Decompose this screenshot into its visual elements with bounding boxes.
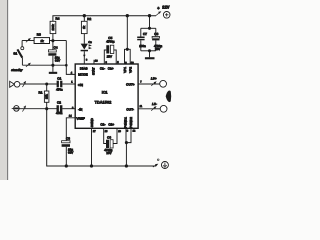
wire VREF pin 14 to C3 (66, 118, 75, 141)
wire C4 node to ground (52, 65, 54, 72)
capacitor C1 (57, 81, 59, 88)
wire lever to standby row (21, 58, 23, 65)
svg-text:12V: 12V (162, 5, 169, 10)
wire R4 to node (52, 34, 54, 41)
switch S1 contact arrow bottom (26, 64, 30, 67)
wire switch top contact to R3 (22, 40, 34, 42)
svg-text:15: 15 (105, 130, 108, 133)
svg-text:PGND1: PGND1 (123, 117, 127, 128)
svg-text:VREF: VREF (76, 116, 85, 120)
svg-text:LS+: LS+ (151, 77, 157, 81)
op-amp IC1 TDA1562 outline (75, 64, 138, 128)
pin 16 STAT stub (93, 60, 95, 64)
svg-text:6: 6 (127, 130, 129, 133)
input connector K1 (10, 81, 15, 87)
svg-text:R2: R2 (87, 17, 91, 21)
svg-text:C2: C2 (57, 100, 61, 104)
node R3/R4/C4 junction (51, 39, 54, 42)
svg-text:17: 17 (93, 130, 96, 133)
svg-text:R1: R1 (39, 90, 43, 94)
svg-text:PGND2: PGND2 (129, 117, 133, 128)
svg-text:11: 11 (140, 105, 143, 108)
wire OUT+ pin 7 to terminal LS+ (138, 83, 160, 85)
capacitor C4 (52, 41, 54, 50)
svg-text:25V: 25V (107, 54, 112, 58)
terminal ground (153, 165, 157, 168)
svg-text:100n: 100n (139, 44, 146, 48)
capacitor C2 (57, 105, 59, 112)
node rail/C7 C8 feed (148, 14, 151, 17)
svg-text:OUT+: OUT+ (126, 83, 135, 87)
wire input2 to C2 (19, 108, 56, 110)
svg-text:7: 7 (140, 80, 142, 83)
svg-text:C3: C3 (66, 136, 70, 140)
capacitor C8 (155, 28, 157, 36)
svg-text:R3: R3 (37, 33, 41, 37)
svg-text:TDA1562: TDA1562 (95, 100, 112, 104)
page edge grey band (0, 0, 7, 180)
svg-text:8: 8 (86, 58, 88, 61)
switch S1 contact arrow top (26, 39, 30, 42)
svg-text:On: On (88, 41, 92, 44)
wire R3 to junction (50, 40, 53, 42)
wire bottom ground rail (47, 109, 157, 166)
wire input1 to C1 (20, 83, 57, 85)
node C3/ground rail (65, 164, 68, 167)
ground bar under C4 (49, 72, 57, 74)
wire C1 to +IN pin 1 (62, 83, 75, 85)
capacitor C7 (140, 28, 142, 36)
svg-text:STAT: STAT (92, 67, 96, 75)
node rail/R2 junction (83, 14, 86, 17)
wire OUT- pin 11 to terminal LS- (138, 108, 160, 110)
capacitor C6 (104, 128, 106, 143)
svg-text:OUT-: OUT- (126, 107, 134, 111)
svg-text:10k: 10k (45, 94, 49, 99)
ground bar under C7/C8 (145, 57, 155, 59)
svg-text:100k: 100k (51, 24, 55, 31)
svg-text:13: 13 (118, 130, 121, 133)
svg-text:standby: standby (11, 68, 23, 72)
svg-text:R4: R4 (56, 16, 60, 20)
svg-text:C6: C6 (107, 135, 111, 139)
svg-text:C7: C7 (143, 32, 147, 36)
svg-text:VP1: VP1 (123, 67, 127, 73)
svg-text:25V: 25V (155, 47, 160, 51)
wire top supply rail (53, 16, 156, 22)
svg-text:C1+: C1+ (108, 66, 114, 70)
svg-text:12: 12 (133, 130, 136, 133)
svg-text:MODE: MODE (78, 73, 87, 77)
wire SGND pin 17 to rail (91, 128, 93, 166)
svg-text:C2-: C2- (100, 123, 105, 127)
svg-text:1: 1 (71, 81, 73, 84)
loudspeaker symbol (166, 90, 172, 102)
svg-text:VP2: VP2 (129, 67, 133, 73)
resistor R3 (34, 38, 49, 44)
svg-text:S1: S1 (13, 51, 17, 55)
node input2/R1 (45, 107, 48, 110)
svg-text:+IN: +IN (78, 83, 83, 87)
LED D1 (81, 44, 88, 50)
wire C2 to -IN pin 2 (62, 108, 75, 110)
svg-text:25V: 25V (106, 151, 111, 155)
node standby/MODE column junction (65, 64, 68, 67)
capacitor C3 (62, 141, 70, 143)
resistor R1 (46, 84, 48, 91)
svg-text:16: 16 (95, 59, 98, 62)
svg-text:C4: C4 (54, 45, 58, 49)
svg-text:C8: C8 (154, 32, 158, 36)
svg-text:470n: 470n (56, 111, 63, 115)
svg-text:470n: 470n (56, 87, 63, 91)
resistor R4 (50, 21, 56, 33)
wire standby row (22, 64, 66, 66)
wire R2 to LED (83, 34, 85, 44)
node standby/C4 junction (51, 64, 54, 67)
switch S1 pivot contact (21, 47, 24, 50)
wire rail down to C7/C8 bracket (149, 16, 151, 29)
wire junction row to MODE column (53, 40, 66, 42)
wire rail to VP1/VP2 pins 9 10 (126, 16, 128, 50)
node rail/VP feed (126, 14, 129, 17)
svg-text:C1-: C1- (100, 66, 105, 70)
input connector K2 ground (14, 106, 20, 112)
capacitor C5 (104, 50, 106, 64)
svg-text:63V: 63V (55, 59, 60, 63)
svg-text:DIAG: DIAG (80, 66, 88, 70)
terminal +12V (156, 12, 160, 15)
svg-text:SGND: SGND (90, 117, 94, 127)
wire MODE column down to pin 4 (66, 41, 75, 75)
svg-text:C2+: C2+ (108, 123, 114, 127)
svg-text:-IN: -IN (78, 107, 82, 111)
svg-text:C1: C1 (57, 77, 61, 81)
terminal LS- (160, 105, 167, 112)
wire down to switch top contact circle (21, 41, 23, 47)
svg-text:14: 14 (69, 115, 72, 118)
svg-text:4700µ: 4700µ (106, 40, 114, 44)
wire C7/C8 bottom bracket to ground (141, 50, 156, 52)
svg-text:LS-: LS- (152, 102, 157, 106)
svg-text:63V: 63V (68, 150, 73, 154)
wire LED to DIAG pin 8 (83, 51, 85, 64)
switch S1 lever (17, 49, 22, 57)
svg-text:IC1: IC1 (102, 91, 108, 95)
svg-text:+: + (157, 6, 160, 11)
terminal LS+ (160, 80, 167, 87)
resistor R2 (83, 16, 85, 22)
wire PGND1 pin 6 / PGND2 pin 12 to rail (126, 128, 131, 142)
node input1/R1 (45, 82, 48, 85)
